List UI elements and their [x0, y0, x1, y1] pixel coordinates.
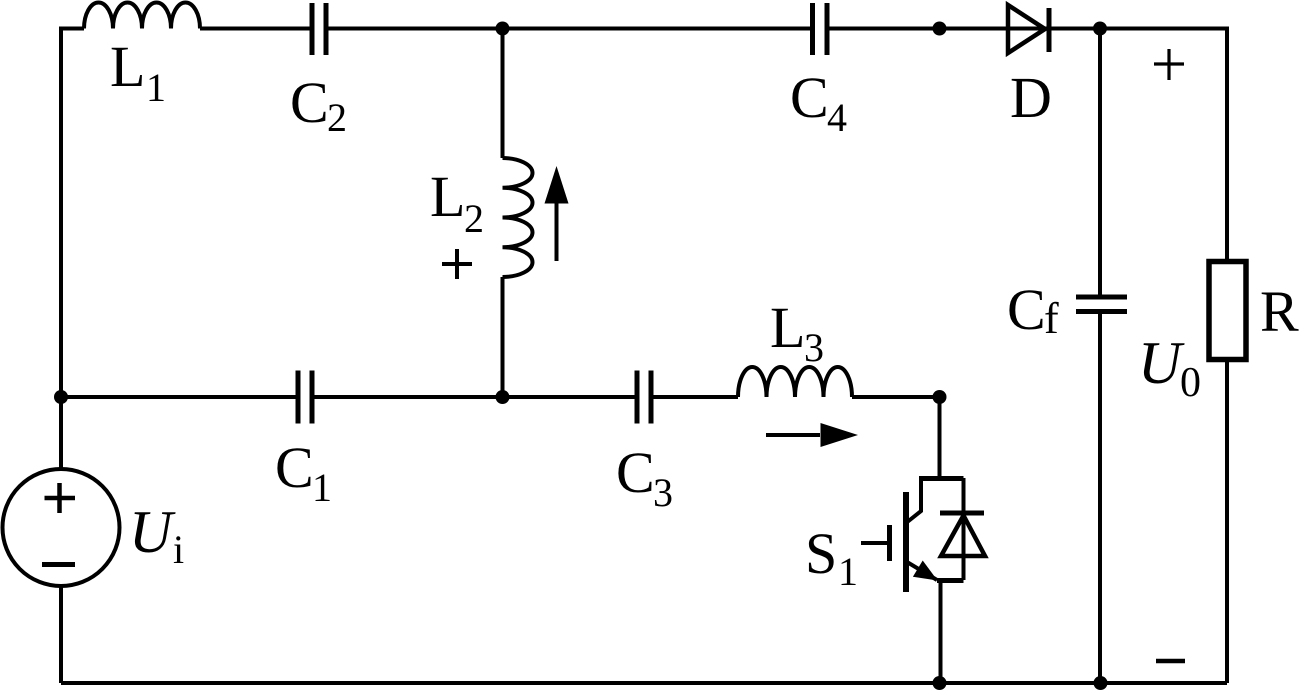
label L1: [110, 34, 166, 110]
node at top of S1 branch: [933, 22, 947, 36]
label C3: [616, 440, 673, 515]
current arrow beside L2: [545, 166, 569, 261]
svg-text:S: S: [805, 521, 837, 586]
svg-text:C: C: [290, 70, 329, 135]
label C1: [275, 435, 332, 510]
capacitor C1: [298, 371, 312, 424]
svg-text:f: f: [1044, 294, 1059, 343]
node middle at L2 bottom: [496, 390, 510, 404]
svg-text:1: 1: [146, 65, 166, 110]
svg-text:C: C: [1007, 277, 1046, 342]
resistor R: [1209, 262, 1246, 360]
node at top of Cf branch: [1093, 22, 1107, 36]
wire right rail upper: [1225, 27, 1229, 262]
inductor L3: [738, 367, 852, 397]
svg-text:4: 4: [827, 95, 847, 140]
node bottom below Cf: [1094, 676, 1108, 690]
wire C4 to top-right corner: [830, 27, 1228, 31]
node middle-right above S1: [933, 390, 947, 404]
wire bottom rail: [61, 681, 1227, 685]
svg-text:C: C: [616, 440, 655, 505]
svg-text:2: 2: [327, 95, 347, 140]
label C2: [290, 70, 347, 140]
label L2: [430, 164, 484, 241]
svg-text:0: 0: [1180, 360, 1201, 406]
plus sign inside Ui: [45, 483, 76, 513]
transistor S1 (IGBT): [861, 476, 964, 592]
label U0: [1138, 330, 1201, 406]
wire Ui to bottom-left corner: [59, 586, 63, 683]
wire L3 to S1 branch node: [852, 395, 940, 399]
plus sign at L2: [442, 249, 472, 279]
svg-text:U: U: [129, 499, 176, 565]
capacitor Cf: [1076, 297, 1127, 312]
label Ui: [129, 499, 184, 572]
current arrow below L3: [766, 423, 858, 447]
wire S1 emitter to bottom: [939, 581, 943, 684]
plus sign output: [1154, 49, 1184, 80]
diode D: [1008, 5, 1049, 53]
capacitor C2: [312, 3, 326, 55]
node bottom below S1: [933, 676, 947, 690]
wire L2 branch upper: [501, 29, 505, 159]
svg-text:L: L: [770, 295, 805, 360]
svg-text:2: 2: [464, 196, 484, 241]
wire L2 branch lower: [501, 277, 505, 397]
label Cf: [1007, 277, 1059, 343]
svg-text:L: L: [110, 34, 145, 99]
antiparallel diode of S1: [940, 513, 985, 556]
svg-text:1: 1: [838, 549, 858, 594]
minus sign output: [1156, 659, 1185, 664]
label C4: [790, 65, 847, 140]
svg-text:U: U: [1138, 330, 1185, 396]
svg-text:i: i: [173, 527, 184, 572]
inductor L1: [84, 3, 200, 29]
svg-text:C: C: [790, 65, 829, 130]
node middle-left: [54, 390, 68, 404]
svg-text:R: R: [1260, 279, 1299, 344]
svg-text:1: 1: [312, 465, 332, 510]
minus sign inside Ui: [42, 562, 75, 567]
node at top of L2 branch: [496, 22, 510, 36]
label S1: [805, 521, 858, 594]
svg-text:D: D: [1010, 65, 1052, 130]
wire Cf branch lower: [1098, 314, 1102, 683]
capacitor C3: [637, 371, 651, 424]
label L3: [770, 295, 824, 370]
wire S1 collector lead: [938, 397, 942, 476]
voltage source Ui: [3, 469, 120, 586]
wire L1 to C2: [200, 27, 310, 31]
wire Cf branch upper: [1098, 29, 1102, 295]
capacitor C4: [813, 3, 828, 55]
wire right rail lower: [1225, 361, 1229, 683]
wire C2 to C4: [329, 27, 811, 31]
wire top-left corner segment into L1: [61, 29, 84, 470]
svg-text:C: C: [275, 435, 314, 500]
svg-text:3: 3: [653, 470, 673, 515]
svg-text:3: 3: [804, 325, 824, 370]
inductor L2: [503, 158, 533, 277]
wire middle left node to C1: [61, 395, 296, 399]
svg-text:L: L: [430, 164, 465, 229]
wire C3 to L3: [654, 395, 739, 399]
wire C1 to C3: [315, 395, 635, 399]
